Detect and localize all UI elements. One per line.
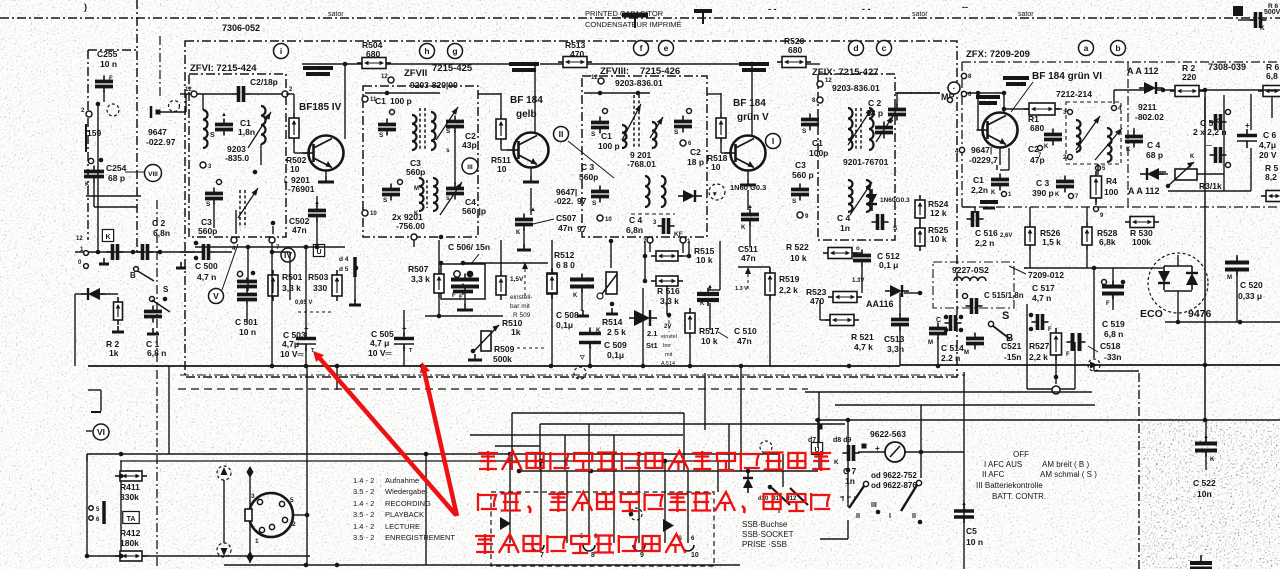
- ground under C507: [517, 244, 531, 250]
- svg-text:R 522: R 522: [786, 242, 809, 252]
- svg-text:10 n: 10 n: [239, 327, 256, 337]
- switch row line left: [75, 251, 195, 253]
- boxed U d7: [811, 443, 822, 455]
- wire x337 down: [336, 366, 338, 390]
- capacitor C1 left: [144, 306, 162, 323]
- svg-text:0,65 V: 0,65 V: [295, 300, 312, 306]
- socket vert 6: [638, 454, 640, 543]
- wire y207 left: [94, 206, 137, 208]
- pin 12 ZFIX: [817, 78, 832, 87]
- core dash ZFIX b: [860, 108, 862, 150]
- wire horiz under R510: [425, 315, 503, 317]
- wire down from R2: [1204, 90, 1206, 112]
- wire C519 down: [1112, 294, 1114, 310]
- switch lever socket b: [790, 488, 808, 505]
- wire vert x921 down: [920, 405, 922, 452]
- transistor BF185: [303, 136, 344, 171]
- junction C517 b: [1029, 327, 1034, 332]
- svg-text:3.5 - 2: 3.5 - 2: [353, 487, 374, 496]
- dashed pad right socket: [760, 441, 772, 453]
- svg-text:7215-426: 7215-426: [640, 66, 680, 77]
- wire d contact down: [354, 277, 356, 302]
- svg-text:C 4: C 4: [837, 213, 851, 223]
- wire R507 down: [438, 298, 440, 316]
- circled MP dot: [948, 82, 960, 94]
- wire row y207 a: [962, 206, 975, 208]
- capacitor C7: [843, 445, 860, 461]
- resistor R515 box: [651, 251, 683, 261]
- junction 9227 d: [959, 328, 964, 333]
- svg-text:159: 159: [87, 128, 101, 138]
- pad d4 d5: [354, 266, 359, 271]
- wire x964 bottom: [963, 452, 965, 569]
- svg-text:R3/1k: R3/1k: [1199, 181, 1222, 191]
- svg-text:K: K: [1126, 147, 1131, 153]
- wire R522 link: [852, 252, 862, 254]
- pad above C3: [217, 180, 222, 185]
- wire C513 down: [899, 329, 901, 365]
- ground d contact: [349, 299, 361, 305]
- emitter ground BF185: [318, 176, 334, 182]
- wire ZFX mid: [1155, 171, 1166, 173]
- junction ZFX d1: [1161, 88, 1166, 93]
- socket vert 1: [509, 454, 511, 543]
- wire x720 vert: [719, 241, 721, 290]
- square d9: [862, 444, 867, 449]
- pad C519: [1102, 280, 1107, 285]
- wire x307 long: [306, 366, 308, 565]
- module ZFVI box: [189, 74, 286, 237]
- svg-text:47n: 47n: [741, 253, 756, 263]
- resistor R5 box: [1261, 191, 1280, 202]
- bus dot f: [641, 364, 646, 369]
- meter 9622: [875, 442, 905, 462]
- wire C522 down: [1205, 452, 1207, 470]
- capacitor big F mid: [451, 274, 479, 293]
- wire C2 down: [454, 131, 456, 184]
- socket vert 3: [566, 471, 568, 543]
- wire R511 top: [500, 93, 502, 114]
- svg-text:7: 7: [540, 552, 544, 559]
- wire x848 lower: [847, 470, 849, 507]
- junction lower: [271, 221, 276, 226]
- junction R412 left: [119, 554, 124, 559]
- contact o2: [84, 264, 89, 269]
- svg-text:sator: sator: [1018, 11, 1034, 18]
- svg-text:K: K: [1210, 457, 1215, 463]
- wire diode row left b: [101, 293, 118, 295]
- svg-text:100 p: 100 p: [390, 96, 412, 106]
- socket pin cup 9: [633, 545, 645, 551]
- svg-text:R 6: R 6: [1268, 3, 1279, 10]
- capacitor C4 68p ZFX: [1125, 131, 1143, 148]
- wire C502 to row: [316, 220, 318, 247]
- resistor R530 box: [1125, 217, 1159, 228]
- svg-text:C 514: C 514: [941, 343, 964, 353]
- diamond tip top: [247, 466, 254, 478]
- dot y247 a: [246, 245, 251, 250]
- svg-text:VIII: VIII: [148, 171, 158, 178]
- svg-text:9203-836.01: 9203-836.01: [832, 83, 880, 93]
- core dash ZFVIII b: [638, 95, 640, 148]
- core bars ZFX a: [1003, 78, 1029, 84]
- DIN connector body: [245, 493, 293, 537]
- wire base join: [294, 152, 308, 154]
- capacitor C509: [579, 328, 601, 349]
- svg-text:): ): [84, 2, 87, 12]
- junction C506 a: [439, 261, 444, 266]
- diode 1N60 ZFVIII: [678, 190, 702, 202]
- dash-dot x1139 lower: [1138, 373, 1140, 569]
- svg-text:od 9622-752: od 9622-752: [871, 471, 917, 480]
- circled III: [462, 158, 478, 174]
- resistor R521 box: [825, 315, 859, 326]
- pin 6 ZFVIII: [680, 140, 692, 147]
- routing vert d: [683, 413, 685, 470]
- svg-text:1n: 1n: [845, 476, 855, 486]
- core dash ZFVII b: [424, 108, 426, 150]
- resistor R504: [357, 58, 391, 69]
- diode ECO right: [1186, 266, 1198, 290]
- svg-text:C521: C521: [1001, 341, 1022, 351]
- dashed pad socket: [630, 508, 642, 520]
- capacitor C3 390p ZFX: [1056, 176, 1074, 193]
- resistor R501 box: [268, 270, 278, 301]
- wire y263 link: [463, 262, 548, 264]
- top bus segment 5: [805, 63, 820, 65]
- socket vert 5: [613, 435, 615, 543]
- capacitor C1 100p ZFVII: [378, 119, 396, 136]
- junction AA116 out: [918, 291, 923, 296]
- switch lever S: [152, 300, 170, 312]
- coil tertiary ZFVII: [419, 178, 424, 211]
- capacitor 500V top right: [1250, 12, 1267, 28]
- dot y461 a: [539, 459, 544, 464]
- junction y420 c: [1203, 418, 1208, 423]
- pointer II: [568, 141, 614, 178]
- dot y247 b: [304, 245, 309, 250]
- wire base ZFX: [977, 120, 979, 130]
- junction switch row a: [96, 250, 101, 255]
- svg-text:12 k: 12 k: [930, 208, 947, 218]
- coil tertiary ZFVIII: [645, 176, 650, 207]
- svg-text:Aufnahme: Aufnahme: [385, 476, 419, 485]
- svg-text:-33n: -33n: [1104, 352, 1121, 362]
- svg-text:20 V: 20 V: [1259, 150, 1277, 160]
- bus dot d: [549, 364, 554, 369]
- svg-text:C518: C518: [1100, 341, 1121, 351]
- junction y420 b: [846, 418, 851, 423]
- wire eco stem top: [1177, 255, 1179, 266]
- wire down from eco bus: [1093, 268, 1095, 322]
- wire C513 up: [899, 293, 901, 315]
- svg-text:-022.: -022.: [146, 137, 165, 147]
- svg-text:II: II: [912, 513, 916, 520]
- svg-text:S: S: [379, 132, 384, 139]
- bus dot g: [688, 364, 693, 369]
- resistor mid box b: [547, 269, 557, 298]
- coil ZFX secondary: [1107, 128, 1112, 162]
- wire C503 to bus: [305, 347, 307, 366]
- dashed circle pad left: [107, 104, 119, 116]
- junction C506 b: [461, 261, 466, 266]
- left box top: [87, 453, 780, 455]
- junction switch row b: [131, 250, 136, 255]
- dashed arrow 1.3V: [747, 268, 749, 292]
- wire emitter gruenV down: [747, 190, 749, 210]
- svg-text:grün V: grün V: [737, 112, 769, 123]
- svg-text:-835.0: -835.0: [225, 153, 249, 163]
- svg-text:F: F: [109, 76, 113, 82]
- coil secondary ZFIX: [869, 108, 874, 150]
- junction y322 b: [1238, 320, 1243, 325]
- wire coil2 down: [260, 144, 262, 165]
- svg-text:▲: ▲: [221, 112, 227, 118]
- transistor BF184 gruenVI: [977, 113, 1018, 148]
- svg-text:einstel: einstel: [661, 334, 677, 340]
- svg-text:18 p: 18 p: [866, 108, 883, 118]
- wire base to pin: [293, 94, 295, 113]
- svg-text:6,8n: 6,8n: [153, 228, 170, 238]
- top right terminal square: [1233, 6, 1243, 16]
- svg-text:3,3 k: 3,3 k: [282, 283, 301, 293]
- svg-text:B: B: [130, 271, 136, 280]
- wire AA112 bottom link: [1159, 173, 1168, 175]
- wire down to pad: [1093, 322, 1095, 358]
- board 7306-052 outline: [185, 41, 957, 377]
- svg-text:C5: C5: [966, 526, 977, 536]
- square d7: [818, 425, 823, 430]
- coil primary ZFVI: [203, 110, 208, 148]
- bus junction module3: [750, 62, 755, 67]
- wire C519 up: [1112, 268, 1114, 286]
- pad above C254 b: [99, 158, 104, 163]
- coil in 9227 box: [954, 277, 986, 281]
- capacitor switch row b: [137, 244, 154, 260]
- routing vert a: [511, 413, 513, 470]
- svg-text:SSB·Buchse: SSB·Buchse: [742, 520, 788, 529]
- wire R526 up: [1029, 207, 1031, 222]
- module ZFVIII box: [582, 76, 707, 237]
- pad above C3 ZFVII: [398, 180, 403, 185]
- test point f: [634, 41, 649, 56]
- switch lever 9227: [993, 326, 1010, 339]
- main bottom bus right: [900, 364, 1280, 366]
- svg-text:ZFX: 7209-209: ZFX: 7209-209: [966, 49, 1030, 60]
- svg-text:S: S: [1002, 310, 1009, 322]
- coil secondary ZFVI: [261, 106, 266, 144]
- svg-text:R 521: R 521: [851, 332, 874, 342]
- junction eco bus a: [1092, 266, 1097, 271]
- wire link ZFVII out: [478, 93, 501, 95]
- wire y539 stub: [820, 538, 848, 540]
- svg-text:PLAYBACK: PLAYBACK: [385, 510, 424, 519]
- wire vert x1251 a: [1250, 94, 1252, 130]
- junction 9227 b: [959, 315, 964, 320]
- svg-text:III: III: [871, 502, 877, 509]
- svg-text:2.2 n: 2.2 n: [941, 353, 960, 363]
- bus junction at BF185 collector: [343, 62, 348, 67]
- capacitor C1 2.2n ZFX: [991, 174, 1009, 191]
- svg-text:--: --: [962, 2, 968, 12]
- pin 8 ZFIX: [812, 97, 823, 104]
- diode AA116: [885, 285, 909, 297]
- resistor R502 box: [289, 113, 299, 143]
- bottom dashed line: [178, 388, 808, 390]
- ground bars ZFX: [980, 202, 998, 208]
- svg-text:ZFIX: 7215-427: ZFIX: 7215-427: [812, 67, 879, 78]
- svg-text:C2: C2: [690, 147, 701, 157]
- svg-text:3.5 - 2: 3.5 - 2: [353, 510, 374, 519]
- bus dot e: [588, 364, 593, 369]
- wire box top ZFVII: [365, 92, 440, 94]
- svg-text:10: 10: [290, 164, 300, 174]
- svg-text:1.4 - 2: 1.4 - 2: [353, 476, 374, 485]
- svg-text:II: II: [856, 513, 860, 520]
- emitter ground gelb: [523, 176, 539, 182]
- svg-text:560p: 560p: [406, 167, 425, 177]
- dot R515 right: [687, 254, 692, 259]
- wire meter left: [858, 451, 885, 453]
- svg-text:b: b: [1115, 43, 1120, 53]
- pin 9 ZFIX: [797, 212, 809, 220]
- wire R519 down: [769, 295, 771, 366]
- test point a: [1079, 41, 1094, 56]
- dot y454 b: [637, 452, 642, 457]
- circled IV: [281, 248, 295, 262]
- dashed pad arrow: [1088, 359, 1100, 371]
- wire base join gelb: [501, 149, 513, 151]
- svg-text:3.5 - 2: 3.5 - 2: [353, 533, 374, 542]
- trimmer arrow ZFVI lower: [238, 188, 258, 218]
- pad C1 ZFX: [1002, 192, 1013, 199]
- svg-text:VI: VI: [97, 427, 105, 437]
- svg-text:▾: ▾: [712, 191, 717, 198]
- svg-text:330k: 330k: [120, 492, 139, 502]
- svg-text:c: c: [882, 43, 887, 53]
- svg-text:▽: ▽: [579, 355, 585, 361]
- capacitor C514: [929, 323, 947, 340]
- svg-text:2 5 k: 2 5 k: [607, 327, 626, 337]
- capacitor C3 560p ZFVII: [382, 184, 400, 201]
- svg-text:F: F: [1048, 327, 1052, 333]
- svg-text:470: 470: [570, 49, 584, 59]
- svg-text:2.1: 2.1: [647, 329, 657, 338]
- svg-text:e: e: [664, 43, 669, 53]
- wire x1205 long: [1204, 97, 1206, 420]
- transistor BF184 gelb: [508, 133, 549, 168]
- top right wire: [1238, 19, 1253, 21]
- junction y322 a: [1176, 320, 1181, 325]
- junction under C255: [96, 102, 101, 107]
- wire C511 stem: [749, 224, 751, 247]
- pin 2 module ZFVI: [282, 87, 293, 97]
- svg-text:R527: R527: [1029, 341, 1050, 351]
- pin module ZFVII bottom: [411, 234, 417, 240]
- svg-text:C 4: C 4: [1147, 140, 1161, 150]
- 7308-039 board left edge: [1127, 62, 1129, 207]
- svg-text:1.3 V: 1.3 V: [735, 286, 748, 292]
- svg-text:S: S: [674, 129, 679, 136]
- svg-text:S: S: [792, 198, 797, 205]
- circled II: [554, 127, 569, 142]
- wire C507 stem: [523, 229, 525, 247]
- svg-text:C1: C1: [812, 138, 823, 148]
- svg-text:C 4: C 4: [629, 215, 643, 225]
- wire collector up gelb: [534, 64, 536, 133]
- resistor R411: [115, 471, 147, 481]
- contact o5: [89, 506, 93, 510]
- wire y392 right: [805, 391, 1092, 393]
- wire R511 to base: [500, 144, 502, 150]
- svg-text:-76901: -76901: [288, 184, 315, 194]
- wire x964 upper: [963, 372, 965, 392]
- capacitor C510: [697, 288, 719, 306]
- junction ZFX top: [1002, 91, 1007, 96]
- capacitor C514b: [966, 333, 984, 350]
- svg-text:C2/18p: C2/18p: [250, 77, 278, 87]
- junction R507 R510: [437, 314, 442, 319]
- ground mid cap: [457, 304, 473, 310]
- wire base link ZFVI: [286, 93, 294, 95]
- svg-text:10 k: 10 k: [930, 234, 947, 244]
- svg-text:7306-052: 7306-052: [222, 23, 260, 33]
- svg-text:C 519: C 519: [1102, 319, 1125, 329]
- wire MP up: [897, 92, 940, 94]
- printed capacitor C5a: [1210, 114, 1227, 130]
- switch lever socket a: [772, 488, 790, 505]
- bus dot j: [936, 364, 941, 369]
- svg-text:-022.: -022.: [554, 196, 573, 206]
- wire x729 socket: [728, 424, 730, 471]
- svg-text:PRISE ·SSB: PRISE ·SSB: [742, 540, 787, 549]
- pad C5b: [1226, 163, 1231, 168]
- svg-text:7308-039: 7308-039: [1208, 62, 1246, 72]
- svg-text:-15n: -15n: [1004, 352, 1021, 362]
- svg-text:C 2: C 2: [868, 98, 882, 108]
- svg-text:-756.00: -756.00: [396, 221, 425, 231]
- diode St1: [629, 310, 657, 326]
- resistor R412: [115, 551, 147, 561]
- wire left mid horiz: [86, 195, 141, 197]
- wire C522 up: [1205, 420, 1207, 442]
- svg-text:C254: C254: [106, 163, 127, 173]
- wire to AA112 top: [1114, 89, 1144, 91]
- svg-text:A A 112: A A 112: [1128, 186, 1160, 196]
- resistor R519 box: [765, 268, 775, 300]
- svg-text:K: K: [741, 225, 746, 231]
- wire ZFX emitter: [999, 147, 1001, 165]
- svg-text:1k: 1k: [511, 327, 521, 337]
- svg-text:S: S: [210, 132, 215, 139]
- SSB socket dashed box: [491, 492, 714, 566]
- wire eco top: [1164, 265, 1192, 267]
- trimmer arrow ZFX long: [1095, 128, 1122, 160]
- ZFX board left edge: [961, 62, 963, 207]
- svg-text:10n: 10n: [1197, 489, 1212, 499]
- svg-text:7215-425: 7215-425: [432, 63, 473, 74]
- wire R515 right up: [680, 255, 689, 257]
- svg-text:560 p: 560 p: [792, 170, 814, 180]
- switch lever left: [136, 270, 154, 281]
- svg-text:1.4 - 2: 1.4 - 2: [353, 522, 374, 531]
- svg-text:C1: C1: [601, 131, 612, 141]
- svg-text:K: K: [1055, 192, 1060, 198]
- junction C1 top: [385, 91, 390, 96]
- wire vert x741: [740, 366, 742, 471]
- wire R1 left: [1004, 108, 1029, 110]
- svg-text:680: 680: [788, 45, 802, 55]
